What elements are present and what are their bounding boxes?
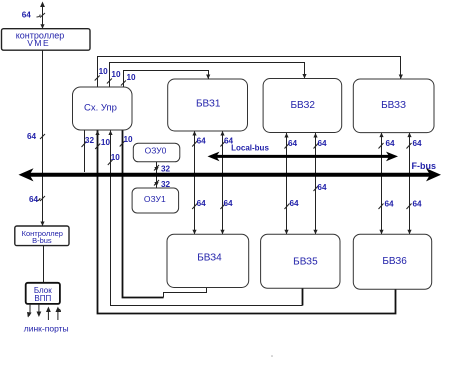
svg-text:10: 10	[127, 73, 137, 82]
svg-text:ОЗУ0: ОЗУ0	[145, 146, 167, 156]
svg-text:БВЗ2: БВЗ2	[290, 100, 315, 111]
svg-text:64: 64	[22, 10, 32, 19]
svg-text:БВЗ6: БВЗ6	[382, 256, 407, 267]
svg-text:64: 64	[318, 139, 328, 148]
svg-text:64: 64	[224, 136, 234, 145]
svg-text:64: 64	[317, 183, 327, 192]
svg-text:линк-порты: линк-порты	[24, 324, 69, 334]
svg-text:10: 10	[101, 138, 111, 147]
svg-text:Local-bus: Local-bus	[231, 144, 269, 153]
svg-text:64: 64	[224, 199, 234, 208]
svg-text:32: 32	[85, 136, 95, 145]
svg-text:10: 10	[111, 70, 121, 79]
svg-text:64: 64	[197, 136, 207, 145]
svg-text:10: 10	[99, 67, 109, 76]
svg-text:БВЗ4: БВЗ4	[197, 253, 222, 264]
svg-text:64: 64	[413, 139, 423, 148]
svg-text:Сх. Упр: Сх. Упр	[84, 103, 117, 114]
svg-text:32: 32	[161, 165, 171, 174]
svg-text:64: 64	[27, 132, 37, 141]
svg-text:БВЗ1: БВЗ1	[196, 98, 221, 109]
svg-text:БВЗ5: БВЗ5	[293, 256, 318, 267]
svg-text:64: 64	[29, 195, 39, 204]
svg-text:64: 64	[197, 199, 207, 208]
svg-text:64: 64	[290, 199, 300, 208]
svg-text:64: 64	[385, 200, 395, 209]
svg-text:10: 10	[124, 135, 134, 144]
svg-text:32: 32	[161, 180, 171, 189]
svg-text:F-bus: F-bus	[412, 161, 437, 171]
svg-text:VME: VME	[27, 38, 50, 48]
svg-text:64: 64	[288, 139, 298, 148]
svg-text:ОЗУ1: ОЗУ1	[144, 194, 166, 204]
svg-text:БВЗЗ: БВЗЗ	[381, 100, 406, 111]
svg-text:64: 64	[413, 200, 423, 209]
svg-text:64: 64	[386, 139, 396, 148]
svg-text:ВПП: ВПП	[34, 294, 51, 303]
svg-text:В-bus: В-bus	[32, 236, 52, 245]
svg-text:10: 10	[111, 153, 121, 162]
